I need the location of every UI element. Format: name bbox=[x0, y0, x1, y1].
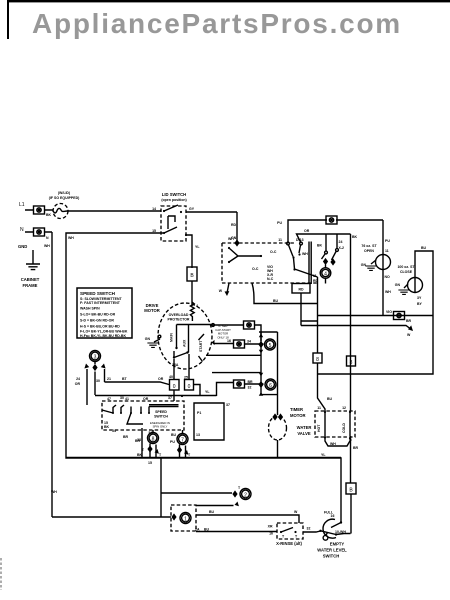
svg-text:OVERLOAD: OVERLOAD bbox=[169, 313, 189, 317]
svg-text:BR: BR bbox=[353, 446, 359, 450]
svg-text:PROTECTOR: PROTECTOR bbox=[168, 318, 190, 322]
svg-text:BK: BK bbox=[317, 244, 323, 248]
svg-text:F: FAST INTERMITTENT: F: FAST INTERMITTENT bbox=[80, 301, 121, 305]
svg-text:OR: OR bbox=[75, 382, 81, 386]
svg-text:S-LO= BK-BU RD-OR: S-LO= BK-BU RD-OR bbox=[80, 313, 116, 317]
svg-text:24: 24 bbox=[76, 377, 80, 381]
svg-text:WH: WH bbox=[330, 442, 336, 446]
svg-text:T: T bbox=[282, 535, 285, 539]
svg-text:BK: BK bbox=[352, 235, 358, 239]
svg-text:WATER: WATER bbox=[297, 425, 312, 430]
svg-text:OR: OR bbox=[304, 229, 310, 233]
svg-text:TIMER: TIMER bbox=[290, 407, 303, 412]
svg-text:13: 13 bbox=[196, 433, 200, 437]
svg-text:MOTOR: MOTOR bbox=[290, 413, 306, 418]
svg-text:H-Fa= BK-YL,BK-BU RD-BK: H-Fa= BK-YL,BK-BU RD-BK bbox=[80, 334, 126, 338]
svg-text:GY: GY bbox=[189, 207, 195, 211]
svg-text:GND: GND bbox=[18, 244, 27, 249]
svg-text:40: 40 bbox=[169, 375, 173, 379]
svg-text:N-C: N-C bbox=[267, 277, 274, 281]
svg-text:41: 41 bbox=[125, 397, 129, 401]
svg-text:PU: PU bbox=[170, 440, 175, 444]
svg-text:GN: GN bbox=[145, 337, 151, 341]
svg-text:BU: BU bbox=[171, 433, 177, 437]
svg-text:(open position): (open position) bbox=[161, 198, 186, 202]
svg-text:47: 47 bbox=[107, 397, 111, 401]
svg-text:SPEED SWITCH: SPEED SWITCH bbox=[80, 291, 116, 296]
svg-text:SWITCH: SWITCH bbox=[323, 554, 340, 559]
svg-text:32: 32 bbox=[248, 386, 252, 390]
svg-text:X-2: X-2 bbox=[339, 246, 345, 250]
svg-text:BU: BU bbox=[327, 397, 333, 401]
svg-text:3Y: 3Y bbox=[417, 296, 422, 300]
svg-text:OPEN: OPEN bbox=[364, 249, 374, 253]
svg-text:XR: XR bbox=[268, 525, 273, 529]
svg-text:MOTOR: MOTOR bbox=[144, 308, 160, 313]
svg-text:3: 3 bbox=[94, 355, 97, 361]
svg-text:AUX: AUX bbox=[182, 339, 186, 347]
svg-text:24: 24 bbox=[339, 240, 343, 244]
svg-text:30: 30 bbox=[96, 379, 100, 383]
svg-text:37: 37 bbox=[226, 403, 230, 407]
svg-text:GN: GN bbox=[395, 283, 401, 287]
svg-text:VALVE: VALVE bbox=[297, 431, 311, 436]
svg-text:B: B bbox=[349, 488, 353, 494]
svg-text:25: 25 bbox=[184, 376, 188, 380]
svg-text:WATER LEVEL: WATER LEVEL bbox=[317, 548, 347, 553]
svg-text:32: 32 bbox=[307, 527, 311, 531]
svg-text:RD: RD bbox=[298, 288, 304, 292]
svg-text:WH: WH bbox=[44, 244, 50, 248]
svg-text:OR: OR bbox=[143, 397, 149, 401]
svg-text:HOT: HOT bbox=[317, 424, 321, 432]
svg-text:14: 14 bbox=[152, 207, 156, 211]
svg-text:100 oz. ST: 100 oz. ST bbox=[397, 265, 415, 269]
svg-text:7: 7 bbox=[181, 438, 184, 444]
svg-text:15: 15 bbox=[148, 461, 152, 465]
svg-text:SPIN ONLY: SPIN ONLY bbox=[153, 425, 168, 429]
svg-text:BR: BR bbox=[406, 319, 412, 323]
svg-text:WH: WH bbox=[385, 290, 391, 294]
svg-text:BU: BU bbox=[273, 299, 279, 303]
svg-text:W: W bbox=[294, 510, 298, 514]
svg-text:SWITCH: SWITCH bbox=[154, 415, 168, 419]
svg-text:4: 4 bbox=[196, 304, 198, 308]
svg-text:BY: BY bbox=[417, 302, 423, 306]
svg-text:2A: 2A bbox=[195, 528, 200, 532]
svg-text:N: N bbox=[46, 236, 49, 240]
svg-text:16: 16 bbox=[269, 532, 273, 536]
svg-text:OR: OR bbox=[158, 377, 164, 381]
svg-text:4: 4 bbox=[324, 272, 327, 278]
svg-text:T: T bbox=[142, 448, 145, 452]
svg-text:BR: BR bbox=[248, 380, 254, 384]
svg-text:NO: NO bbox=[385, 275, 391, 279]
svg-text:MAIN: MAIN bbox=[170, 333, 174, 342]
svg-text:30: 30 bbox=[120, 396, 124, 400]
svg-text:36A: 36A bbox=[172, 363, 179, 367]
svg-text:11: 11 bbox=[317, 406, 321, 410]
svg-text:10-WH: 10-WH bbox=[335, 530, 346, 534]
svg-text:6: 6 bbox=[269, 383, 272, 389]
svg-text:BU: BU bbox=[209, 510, 215, 514]
svg-text:T: T bbox=[188, 453, 191, 457]
svg-text:11: 11 bbox=[278, 238, 282, 242]
svg-text:BK: BK bbox=[104, 425, 110, 429]
svg-text:21: 21 bbox=[107, 377, 111, 381]
svg-text:B: B bbox=[190, 273, 194, 279]
svg-text:BR: BR bbox=[123, 435, 129, 439]
svg-text:WH: WH bbox=[302, 252, 308, 256]
svg-text:16: 16 bbox=[227, 339, 231, 343]
svg-text:X-RINSE (alt): X-RINSE (alt) bbox=[276, 541, 302, 546]
svg-text:11: 11 bbox=[385, 249, 389, 253]
svg-text:GN: GN bbox=[361, 263, 367, 267]
svg-text:WASH SPIN: WASH SPIN bbox=[80, 307, 100, 311]
svg-text:SPEED: SPEED bbox=[155, 410, 167, 414]
svg-text:COLD: COLD bbox=[342, 423, 346, 433]
svg-text:CLOSE: CLOSE bbox=[400, 270, 413, 274]
svg-text:2: 2 bbox=[244, 493, 247, 499]
svg-text:BT: BT bbox=[122, 377, 128, 381]
svg-text:(W/LID): (W/LID) bbox=[58, 191, 70, 195]
svg-text:15: 15 bbox=[152, 229, 156, 233]
svg-text:WH: WH bbox=[228, 237, 234, 241]
svg-text:T: T bbox=[238, 486, 241, 490]
svg-text:0: 0 bbox=[173, 384, 176, 390]
svg-text:1: 1 bbox=[184, 517, 187, 523]
svg-text:EMPTY: EMPTY bbox=[330, 542, 345, 547]
svg-text:W: W bbox=[407, 333, 411, 337]
svg-text:START: START bbox=[199, 340, 203, 352]
svg-text:8: 8 bbox=[350, 360, 353, 366]
svg-text:T: T bbox=[159, 453, 162, 457]
svg-text:PU: PU bbox=[277, 221, 282, 225]
svg-text:LID SWITCH: LID SWITCH bbox=[162, 192, 186, 197]
svg-text:37: 37 bbox=[168, 396, 172, 400]
svg-text:VIO: VIO bbox=[386, 310, 392, 314]
svg-text:BU: BU bbox=[421, 246, 427, 250]
svg-text:WH: WH bbox=[68, 236, 74, 240]
svg-text:76 oz. ST: 76 oz. ST bbox=[361, 244, 377, 248]
svg-text:16: 16 bbox=[331, 514, 335, 518]
svg-text:N: N bbox=[20, 227, 24, 233]
svg-text:PU: PU bbox=[385, 239, 390, 243]
svg-text:O-C: O-C bbox=[270, 250, 277, 254]
svg-text:L1: L1 bbox=[19, 202, 25, 208]
svg-text:P1: P1 bbox=[197, 411, 201, 415]
svg-text:T: T bbox=[295, 535, 298, 539]
svg-text:YL: YL bbox=[321, 453, 326, 457]
svg-text:BK: BK bbox=[46, 213, 52, 217]
svg-text:RD: RD bbox=[231, 223, 237, 227]
svg-text:(IF SO EQUIPPED): (IF SO EQUIPPED) bbox=[49, 196, 80, 200]
svg-text:34: 34 bbox=[247, 340, 251, 344]
svg-text:F-LO= BK-YL,OR-BU WH-BK: F-LO= BK-YL,OR-BU WH-BK bbox=[80, 330, 128, 334]
svg-text:8: 8 bbox=[316, 357, 319, 363]
svg-text:H-S = BK-BU,OR BU-RD: H-S = BK-BU,OR BU-RD bbox=[80, 325, 120, 329]
svg-text:34: 34 bbox=[112, 429, 116, 433]
svg-text:5: 5 bbox=[269, 343, 272, 349]
svg-text:CABINET: CABINET bbox=[21, 277, 40, 282]
svg-text:11: 11 bbox=[313, 274, 317, 278]
svg-text:FRAME: FRAME bbox=[23, 283, 38, 288]
svg-text:WH: WH bbox=[51, 490, 57, 494]
svg-text:8: 8 bbox=[152, 437, 155, 443]
svg-text:12: 12 bbox=[342, 406, 346, 410]
svg-text:O-C: O-C bbox=[252, 267, 259, 271]
svg-text:YL: YL bbox=[195, 245, 200, 249]
svg-text:W: W bbox=[219, 289, 223, 293]
svg-text:BU: BU bbox=[204, 528, 210, 532]
svg-text:S-D = BK-GN RD-OR: S-D = BK-GN RD-OR bbox=[80, 319, 114, 323]
svg-text:BR: BR bbox=[135, 439, 141, 443]
svg-text:YL: YL bbox=[205, 390, 210, 394]
svg-text:0: 0 bbox=[188, 384, 191, 390]
